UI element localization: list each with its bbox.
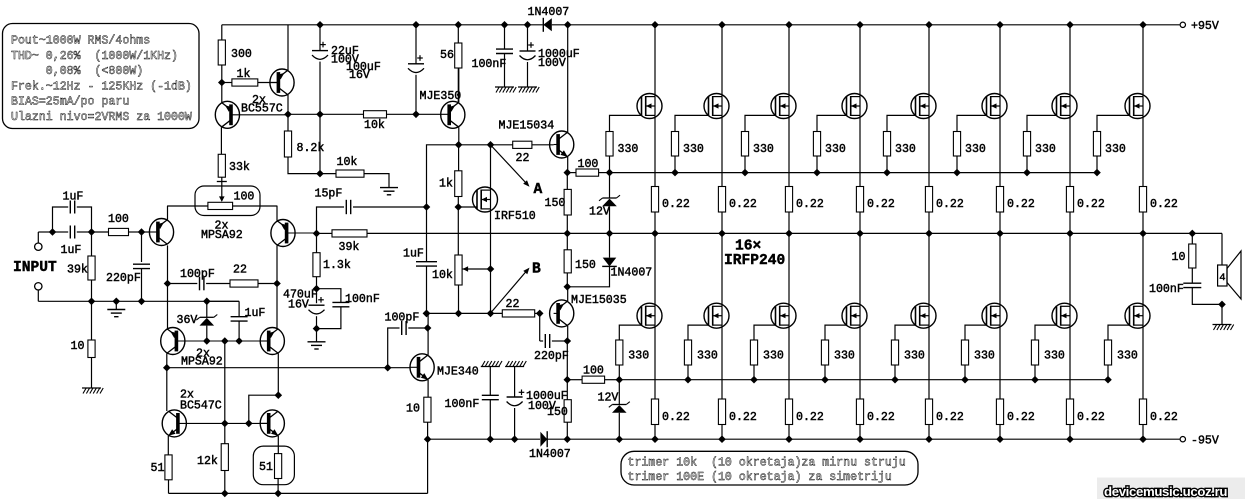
svg-text:100nF: 100nF [472,58,507,71]
svg-text:150: 150 [575,259,596,272]
svg-text:0,08% (<800W): 0,08% (<800W) [11,65,143,78]
svg-text:39k: 39k [67,264,88,277]
svg-text:100: 100 [108,213,129,226]
svg-text:BC547C: BC547C [180,399,222,412]
svg-text:+95V: +95V [1191,20,1219,33]
svg-text:1N4007: 1N4007 [528,6,570,19]
svg-text:1N4007: 1N4007 [529,448,571,461]
svg-text:IRF510: IRF510 [494,210,536,223]
svg-text:12V: 12V [598,392,619,405]
svg-text:15pF: 15pF [315,188,343,201]
svg-text:1N4007: 1N4007 [611,267,653,280]
svg-text:Ulazni nivo=2VRMS za 1000W: Ulazni nivo=2VRMS za 1000W [11,111,192,124]
svg-text:10k: 10k [364,119,385,132]
svg-text:16V: 16V [349,69,370,82]
svg-text:100nF: 100nF [445,398,480,411]
svg-text:36V: 36V [177,314,198,327]
svg-text:0.22: 0.22 [662,411,690,424]
svg-text:330: 330 [965,143,986,156]
svg-text:330: 330 [834,350,855,363]
svg-text:0.22: 0.22 [1150,411,1178,424]
svg-text:100: 100 [234,191,255,204]
svg-text:10: 10 [71,340,85,353]
svg-text:Frek.~12Hz - 125KHz (-1dB): Frek.~12Hz - 125KHz (-1dB) [11,80,192,93]
svg-text:0.22: 0.22 [1077,411,1105,424]
svg-text:0.22: 0.22 [1150,198,1178,211]
svg-text:150: 150 [545,197,566,210]
svg-text:1k: 1k [439,178,453,191]
svg-text:0.22: 0.22 [1007,198,1035,211]
svg-text:12k: 12k [197,455,218,468]
svg-text:39k: 39k [339,241,360,254]
svg-text:B: B [532,262,541,278]
svg-text:0.22: 0.22 [729,411,757,424]
svg-text:MJE15035: MJE15035 [571,294,627,307]
svg-text:330: 330 [1035,143,1056,156]
svg-text:4: 4 [1219,272,1225,284]
svg-text:330: 330 [618,143,639,156]
svg-text:MJE15034: MJE15034 [499,120,555,133]
svg-text:1uF: 1uF [63,191,84,204]
svg-text:0.22: 0.22 [796,411,824,424]
svg-text:220pF: 220pF [106,272,141,285]
svg-text:100pF: 100pF [385,312,420,325]
svg-text:MPSA92: MPSA92 [201,229,243,242]
svg-text:100: 100 [583,365,604,378]
svg-text:0.22: 0.22 [1007,411,1035,424]
svg-text:IRFP240: IRFP240 [724,253,785,269]
svg-text:330: 330 [683,143,704,156]
svg-text:330: 330 [753,143,774,156]
svg-text:22: 22 [506,298,520,311]
svg-text:1uF: 1uF [403,248,424,261]
svg-text:0.22: 0.22 [1077,198,1105,211]
svg-text:BIAS=25mA/po paru: BIAS=25mA/po paru [11,96,129,109]
svg-text:100nF: 100nF [1149,283,1184,296]
svg-text:10k: 10k [337,156,358,169]
svg-text:220pF: 220pF [534,350,569,363]
svg-text:trimer 10k (10 okretaja)za mi: trimer 10k (10 okretaja)za mirnu struju [628,456,906,469]
svg-text:0.22: 0.22 [796,198,824,211]
svg-text:330: 330 [895,143,916,156]
svg-text:1.3k: 1.3k [323,259,351,272]
svg-text:1k: 1k [237,68,251,81]
svg-text:0.22: 0.22 [662,198,690,211]
svg-text:100V: 100V [528,400,556,413]
svg-text:330: 330 [974,350,995,363]
svg-text:100pF: 100pF [180,268,215,281]
svg-text:12V: 12V [589,206,610,219]
svg-text:10: 10 [406,403,420,416]
svg-text:10: 10 [1172,251,1186,264]
svg-text:330: 330 [697,350,718,363]
svg-text:22: 22 [516,152,530,165]
svg-text:0.22: 0.22 [936,411,964,424]
svg-text:10k: 10k [432,269,453,282]
svg-text:330: 330 [1117,350,1138,363]
svg-text:22: 22 [233,264,247,277]
svg-text:330: 330 [904,350,925,363]
svg-text:1uF: 1uF [61,244,82,257]
svg-text:0.22: 0.22 [936,198,964,211]
svg-text:INPUT: INPUT [13,260,57,276]
svg-text:0.22: 0.22 [867,411,895,424]
svg-text:33k: 33k [229,161,250,174]
svg-text:devicemusic.ucoz.ru: devicemusic.ucoz.ru [1104,484,1227,499]
svg-text:100nF: 100nF [345,293,380,306]
svg-text:MJE340: MJE340 [437,366,479,379]
svg-text:THD~ 0,26% (1000W/1KHz): THD~ 0,26% (1000W/1KHz) [11,50,178,63]
svg-text:16V: 16V [288,299,309,312]
svg-text:BC557C: BC557C [241,102,283,115]
svg-text:100V: 100V [538,57,566,70]
svg-text:300: 300 [231,48,252,61]
svg-text:A: A [534,182,543,198]
svg-text:330: 330 [1044,350,1065,363]
svg-text:56: 56 [440,49,454,62]
svg-text:51: 51 [151,462,165,475]
svg-text:0.22: 0.22 [867,198,895,211]
svg-text:330: 330 [1105,143,1126,156]
svg-text:MPSA92: MPSA92 [181,356,223,369]
svg-text:Pout~1000W RMS/4ohms: Pout~1000W RMS/4ohms [11,35,150,48]
svg-text:100: 100 [578,158,599,171]
svg-text:0.22: 0.22 [729,198,757,211]
svg-text:330: 330 [825,143,846,156]
svg-text:51: 51 [259,461,273,474]
svg-text:330: 330 [628,350,649,363]
svg-text:1uF: 1uF [245,307,266,320]
svg-text:trimer 100E (10 okretaja) za s: trimer 100E (10 okretaja) za simetriju [628,471,892,484]
svg-text:330: 330 [763,350,784,363]
svg-text:-95V: -95V [1191,435,1219,448]
